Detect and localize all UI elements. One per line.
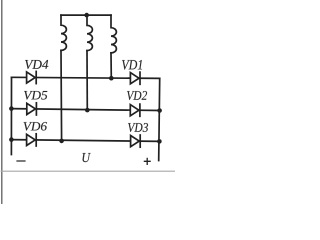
node: phase1 to VD6/VD3 row <box>59 139 64 144</box>
winding L1 (left phase coil) <box>61 15 66 50</box>
frame bottom border <box>1 170 175 172</box>
wire: left minus bus <box>10 77 12 154</box>
wire: row 3 (VD6 / VD3) <box>11 140 159 142</box>
node: plus bus / row3 <box>157 139 162 144</box>
winding L2 (middle phase coil) <box>87 15 92 51</box>
label VD6 <box>24 122 48 131</box>
diode VD4 <box>27 71 37 83</box>
wire: row 1 (VD4 / VD1) <box>12 77 160 78</box>
terminal minus sign <box>17 160 25 162</box>
wire: phase 2 drop to row 2 <box>86 51 88 111</box>
diode VD5 <box>27 103 37 115</box>
label VD1 <box>122 60 142 70</box>
label VD3 <box>128 123 148 132</box>
wire: phase 1 drop to row 3 <box>60 50 63 141</box>
diode VD3 <box>131 135 141 147</box>
label VD4 <box>25 60 48 69</box>
node: star point junction <box>84 13 89 18</box>
wire: top star bus <box>61 14 111 16</box>
wire: phase 3 drop to row 1 <box>110 53 112 78</box>
diode VD2 <box>130 104 140 116</box>
node: minus bus / row3 <box>9 137 14 142</box>
diode VD6 <box>27 134 37 146</box>
node: minus bus / row2 <box>9 106 14 111</box>
terminal plus sign <box>144 158 150 164</box>
wire: right plus bus <box>159 78 160 160</box>
label VD5 <box>24 91 47 100</box>
label VD2 <box>127 91 147 100</box>
node: phase2 to VD5/VD2 row <box>85 108 90 113</box>
node: plus bus / row2 <box>157 108 162 113</box>
label U (output voltage) <box>83 153 91 162</box>
frame left border <box>1 0 3 204</box>
node: phase3 to VD4/VD1 row <box>109 76 114 81</box>
winding L3 (right phase coil) <box>111 15 116 53</box>
wire: row 2 (VD5 / VD2) <box>11 109 159 111</box>
diode VD1 <box>130 72 140 84</box>
